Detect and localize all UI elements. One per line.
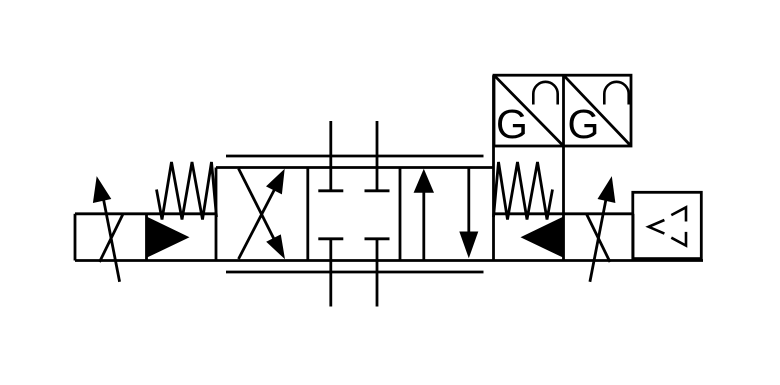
solenoid a coil triangle (filled, points right) [147, 217, 190, 258]
port A stem top [329, 121, 332, 191]
port B stem top [376, 121, 379, 191]
left vertex [649, 220, 665, 234]
svg-text:G: G [496, 101, 528, 147]
position b: parallel flow arrows [414, 168, 479, 261]
proportional adjustment arrow through solenoid b [590, 176, 616, 282]
integrated electronics box [633, 192, 702, 258]
inductive coil arch 2 [604, 82, 628, 105]
vertical link: G-box left edge down valve body right edge [492, 75, 495, 167]
transducer box 2 diagonal [564, 75, 632, 146]
solenoid a housing (left actuator boxes) [75, 214, 216, 261]
spring a (left return spring) [157, 162, 217, 220]
spring b (right return spring) [494, 162, 553, 220]
valve body outline [216, 168, 494, 261]
svg-text:G: G [568, 101, 600, 147]
port T stem bottom [365, 237, 390, 240]
proportional adjustment arrow through solenoid a [93, 176, 120, 282]
transducer box 1 diagonal [494, 75, 564, 146]
proportional rail top [226, 155, 484, 158]
proportional rail bottom [226, 271, 484, 274]
port P stem bottom [318, 237, 343, 240]
solenoid b housing (right actuator boxes) [494, 214, 634, 261]
down arrow [467, 168, 470, 234]
solenoid b coil triangle (filled, points left) [521, 217, 564, 258]
wire: common bottom line under actuators, valve body and electronics box [75, 259, 703, 262]
crossing diagonal inside solenoid a box [100, 214, 124, 262]
position divider 2 [399, 168, 402, 261]
bottom-right vertex [671, 232, 686, 246]
up arrow [422, 191, 425, 261]
inductive coil arch 1 [533, 82, 557, 105]
position 0 (centre): blocked port T symbols [318, 121, 389, 307]
position divider 1 [306, 168, 309, 261]
position transducer boxes (G) outline [494, 75, 631, 146]
top-right vertex [671, 207, 686, 221]
electronics amplifier triangle (open, points left) [649, 207, 686, 245]
position a: crossed flow arrows [239, 169, 286, 260]
crossing diagonal inside solenoid b box [587, 214, 611, 262]
vertical link: G-box divider down through solenoid b divider [562, 75, 565, 260]
